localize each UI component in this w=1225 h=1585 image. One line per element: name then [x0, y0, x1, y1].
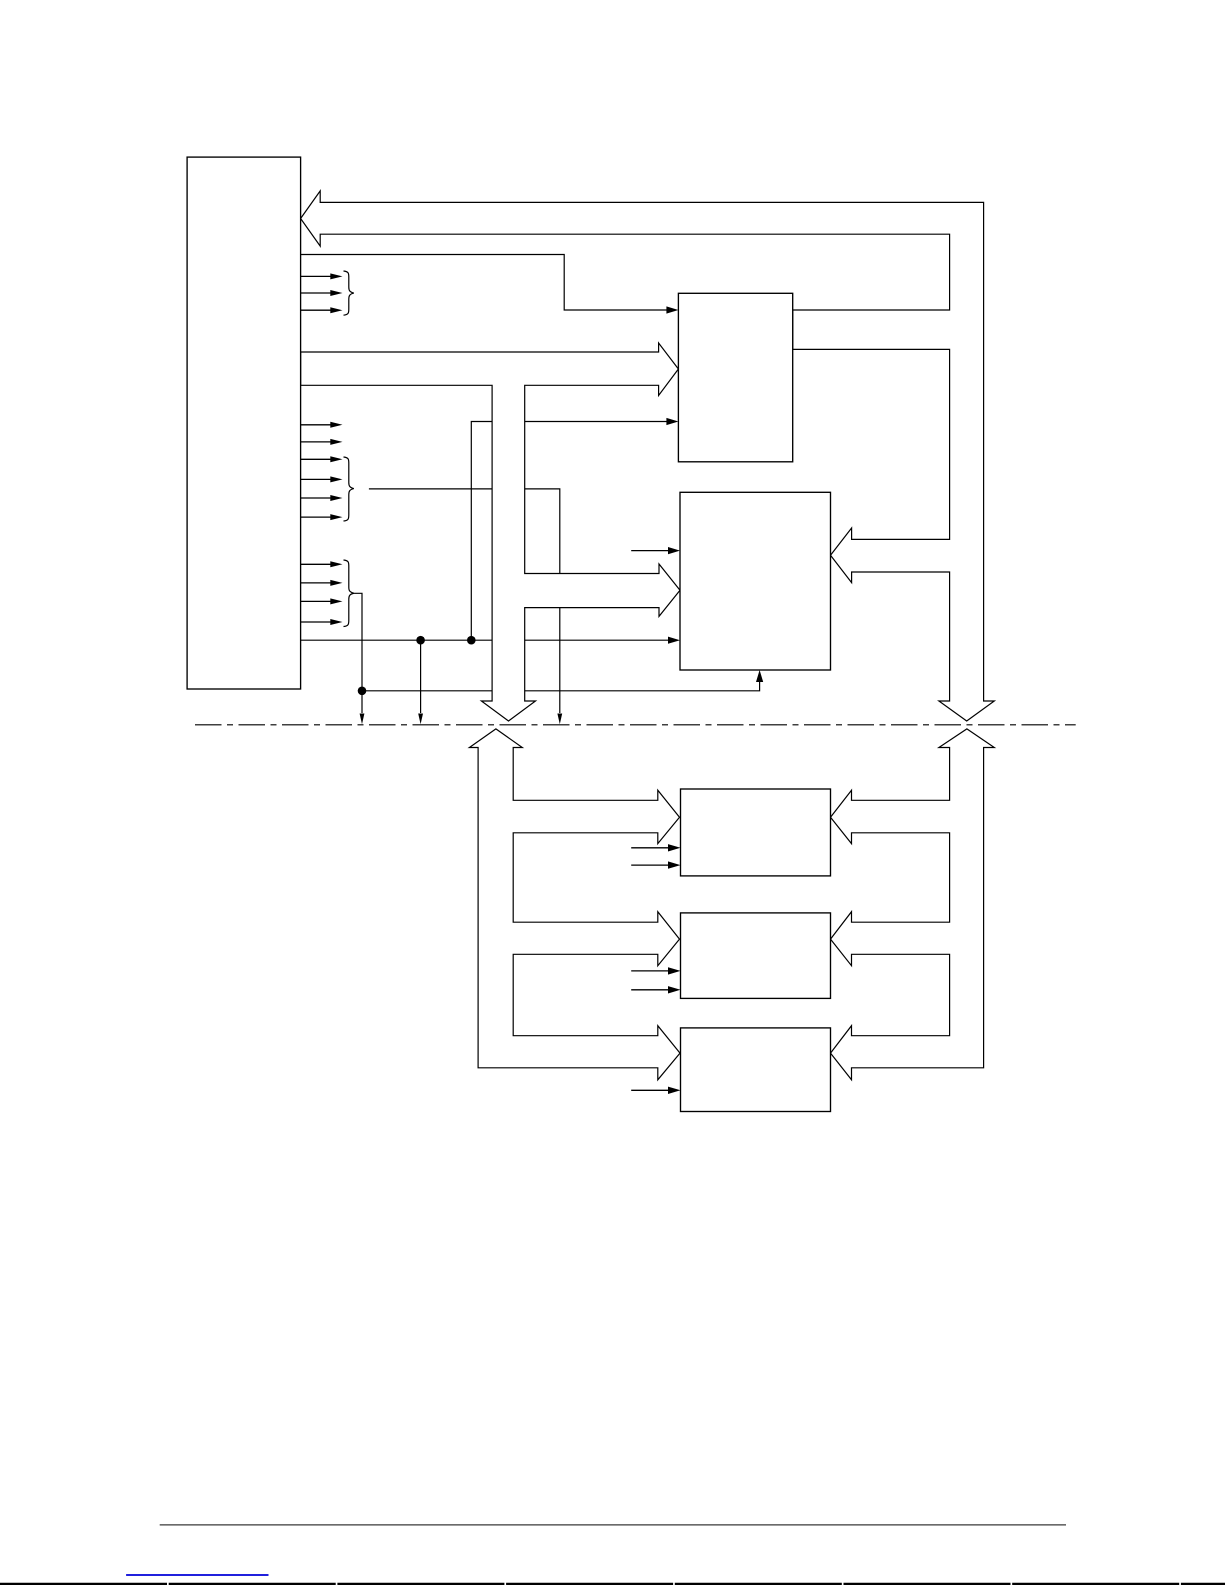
node junction on OSC line 2 [467, 636, 476, 645]
13 short output arrows from left block [301, 273, 343, 625]
wire from node on OSC line up and right into prescaler lower input [471, 422, 668, 641]
pin output arrow y=622.0 [301, 621, 332, 623]
bus polygons (white filled) [301, 191, 995, 1080]
input arrow into bottom block y=865.1 [631, 864, 669, 866]
wire stub down to domain boundary [420, 640, 422, 713]
pin output arrow y=479.4 [301, 478, 332, 480]
pin output arrow y=498.0 [301, 497, 332, 499]
arrowhead into prescaler upper input [666, 306, 678, 313]
block: channel B (bottom 2) [681, 913, 831, 999]
node junction on branch line [358, 687, 367, 696]
footer link underline [126, 1574, 268, 1576]
input arrow into bottom block y=989.8 [631, 989, 669, 991]
arrowhead into prescaler lower input [666, 418, 678, 425]
filled arrowheads [360, 306, 764, 724]
wire short input into timer block left [631, 550, 670, 552]
pin output arrow y=293.0 [301, 292, 332, 294]
block: prescaler (top middle) [678, 293, 792, 462]
brace middle pin group [344, 457, 354, 521]
bus arrow: feedback from right bus and divider into left block (top) [301, 191, 995, 721]
block: channel A (bottom 1) [681, 789, 831, 876]
brace lower pin group [344, 560, 354, 627]
input arrow into bottom block y=847.8 [631, 847, 669, 849]
junction node dots [358, 636, 476, 695]
brace upper pin group [344, 271, 354, 315]
wire horizontal branch to timer bottom pin [362, 680, 760, 691]
blocks [187, 157, 830, 1111]
bus arrow: up from lower domain, branching into three blocks (right side) [831, 729, 995, 1080]
arrowhead down to boundary 3 [557, 714, 562, 725]
block: MCU core (left tall) [187, 157, 301, 689]
wire from brace cusp down, then right to timer bottom [352, 593, 362, 713]
clock-domain boundary dash-dot line [195, 724, 1076, 726]
pin output arrow y=564.3 [301, 563, 332, 565]
arrowhead down to boundary 2 [418, 714, 423, 725]
pin output arrow y=424.8 [301, 424, 332, 426]
pin output arrow y=310.2 [301, 309, 332, 311]
arrowhead into timer block short input [668, 547, 680, 554]
wire from upper brace cusp right, down to domain boundary [369, 489, 560, 713]
page bottom dashed line [0, 1583, 1225, 1585]
wire REF line from MCU to prescaler input [301, 255, 668, 311]
bus arrow: from left block into prescaler and timer, with branch crossing boundary [301, 343, 680, 721]
arrowhead down to boundary 1 [360, 714, 365, 725]
block: timer (middle) [680, 492, 831, 670]
thin nets layer [301, 255, 760, 714]
input arrow into bottom block y=970.9 [631, 970, 669, 972]
pin output arrow y=459.3 [301, 458, 332, 460]
bottom box thin input arrows [631, 844, 680, 1094]
pin output arrow y=441.9 [301, 441, 332, 443]
block: channel C (bottom 3) [681, 1028, 831, 1112]
pin output arrow y=517.1 [301, 516, 332, 518]
footer rule [160, 1524, 1066, 1526]
pin output arrow y=276.4 [301, 275, 332, 277]
arrowhead up into timer block bottom [756, 670, 763, 682]
wire OSC line from MCU to timer block [301, 639, 670, 641]
input arrow into bottom block y=1090.3 [631, 1089, 669, 1091]
pin output arrow y=601.4 [301, 600, 332, 602]
node junction on OSC line 1 [416, 636, 425, 645]
braces [344, 271, 354, 627]
bus arrow: up from lower domain, branching into three blocks (left side) [469, 729, 680, 1080]
pin output arrow y=582.9 [301, 582, 332, 584]
arrowhead into timer block left [668, 637, 680, 644]
